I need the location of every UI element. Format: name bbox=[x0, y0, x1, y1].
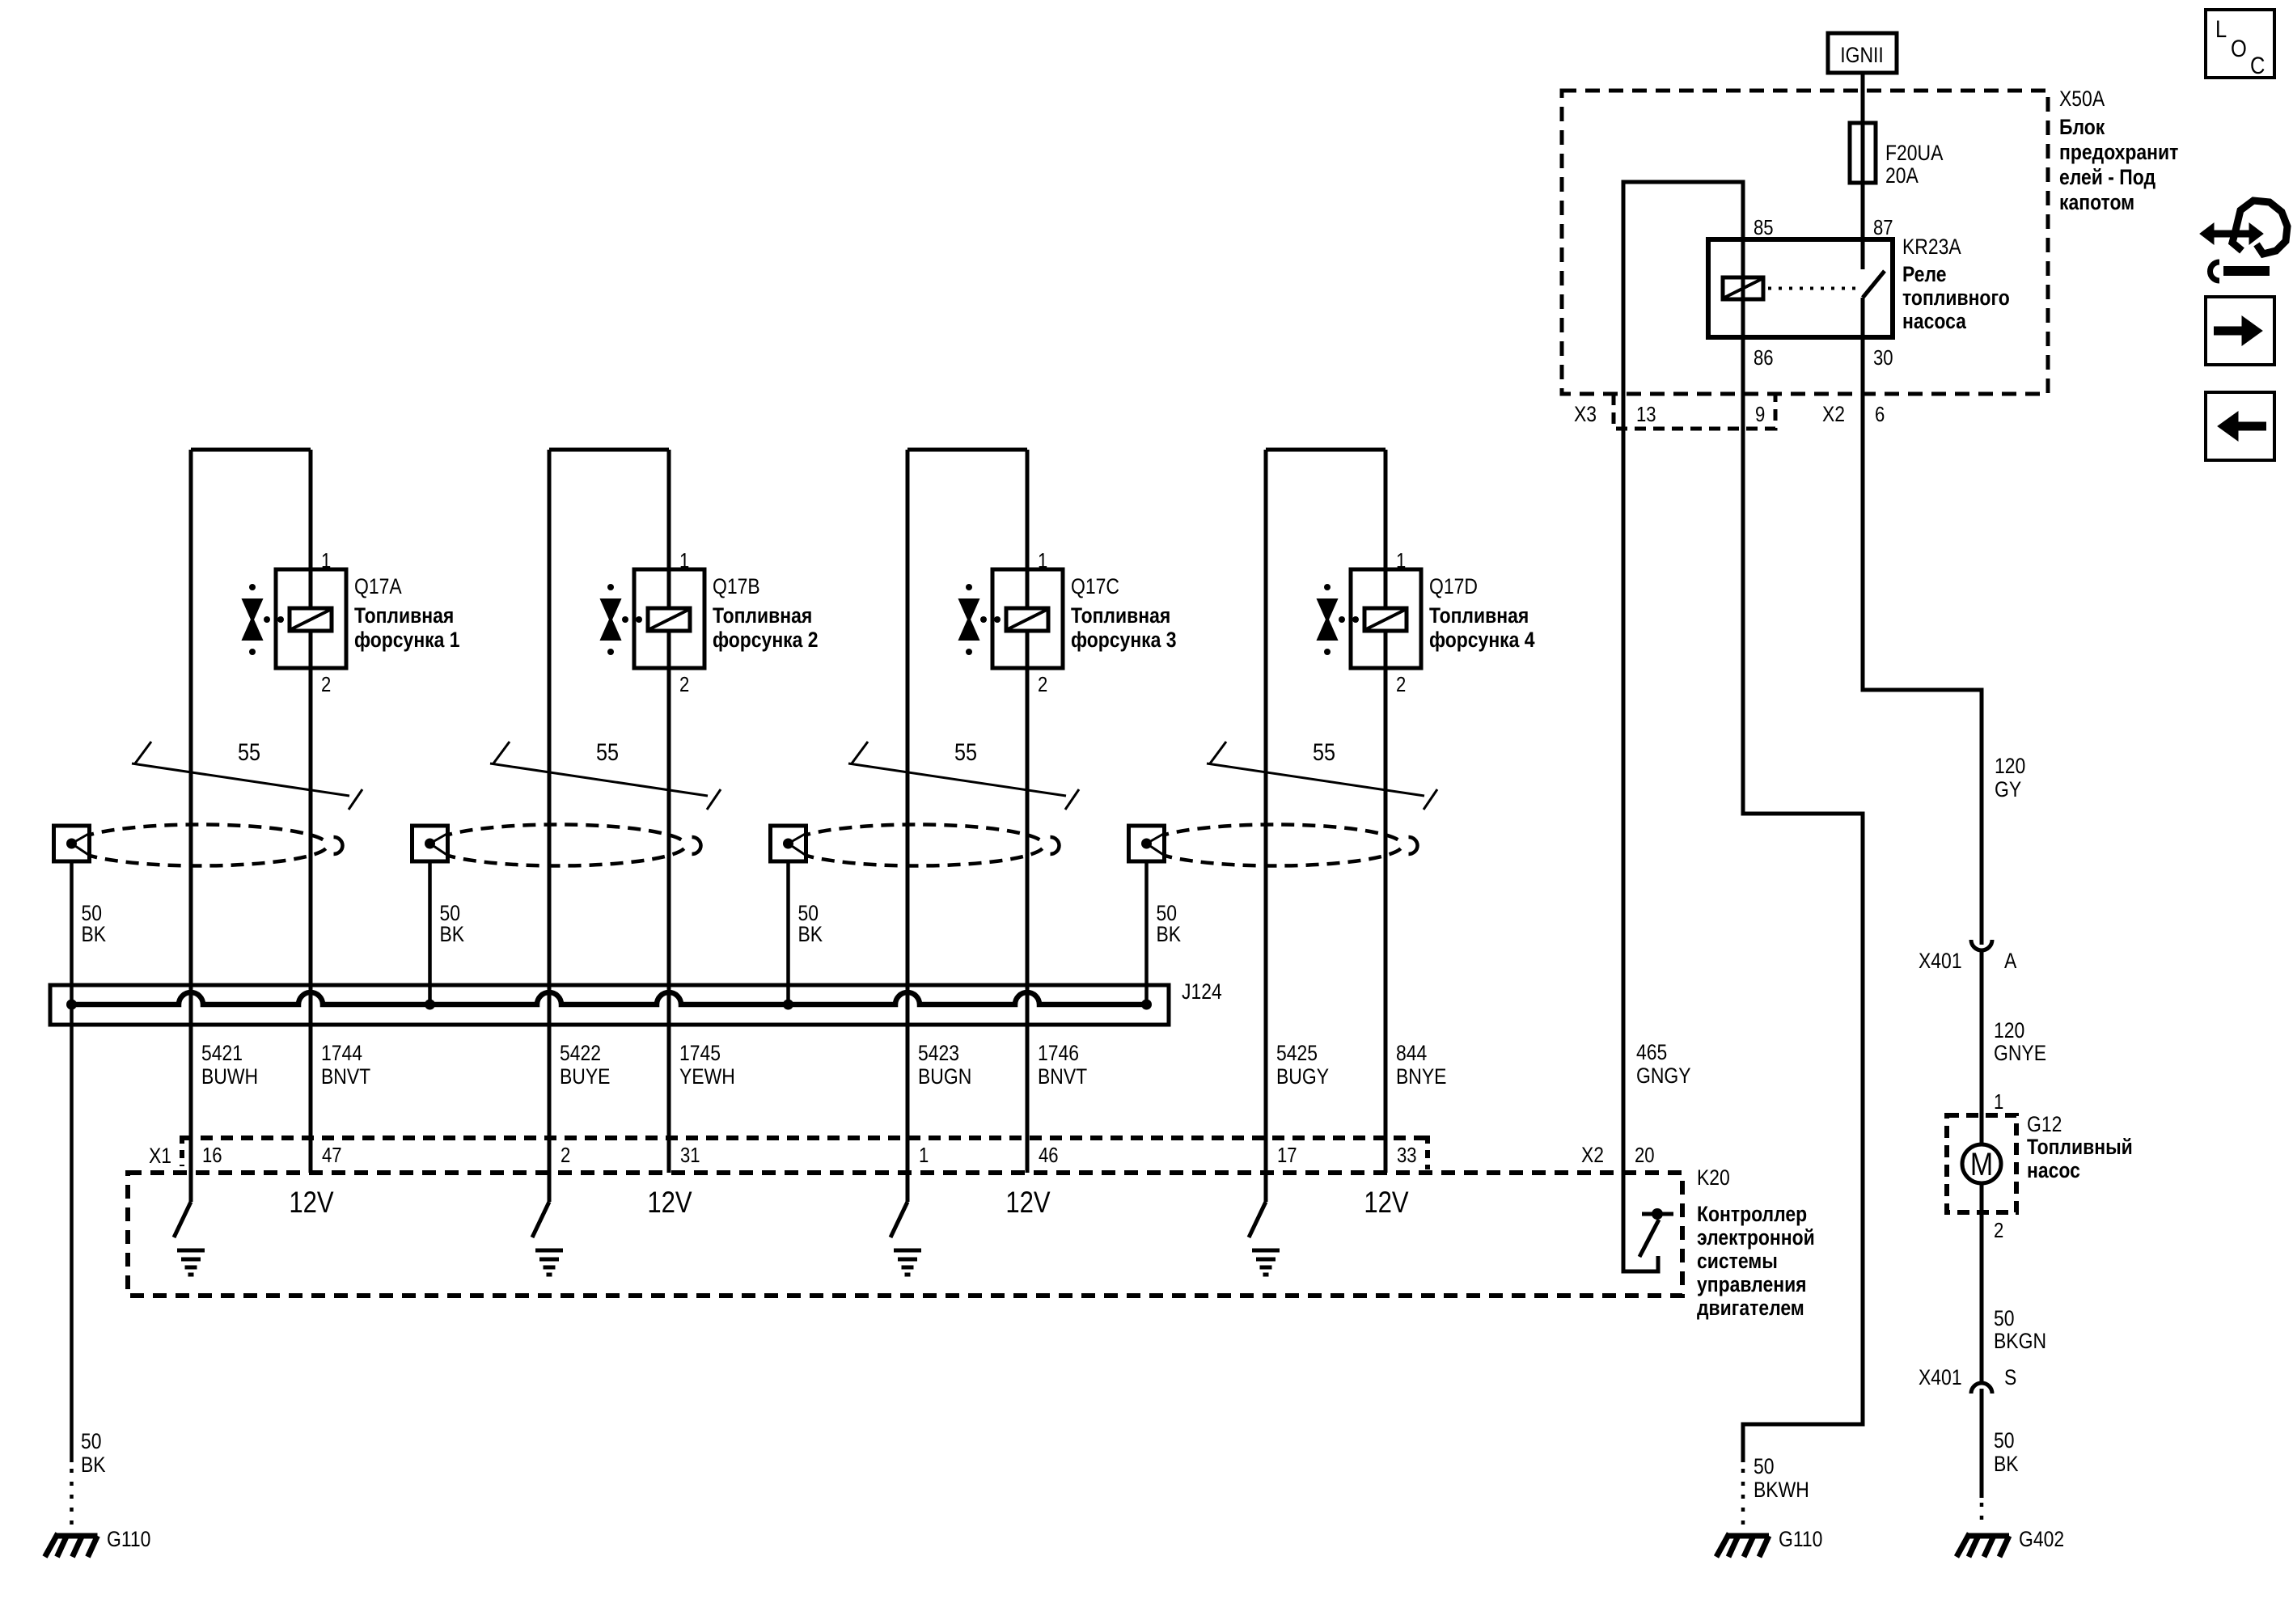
svg-text:31: 31 bbox=[680, 1144, 700, 1167]
svg-text:GNGY: GNGY bbox=[1636, 1064, 1691, 1088]
svg-text:A: A bbox=[2004, 949, 2017, 973]
svg-text:предохранит: предохранит bbox=[2059, 140, 2178, 164]
svg-text:1: 1 bbox=[919, 1144, 929, 1167]
svg-text:55: 55 bbox=[238, 738, 260, 766]
svg-text:M: M bbox=[1970, 1145, 1993, 1182]
svg-text:46: 46 bbox=[1039, 1144, 1059, 1167]
svg-text:Q17D: Q17D bbox=[1429, 574, 1478, 598]
svg-text:S: S bbox=[2004, 1365, 2016, 1389]
svg-text:844: 844 bbox=[1396, 1041, 1427, 1065]
svg-text:насоса: насоса bbox=[1902, 309, 1967, 333]
svg-text:5422: 5422 bbox=[560, 1041, 601, 1065]
svg-text:30: 30 bbox=[1873, 346, 1893, 370]
svg-text:управления: управления bbox=[1697, 1272, 1807, 1296]
svg-text:47: 47 bbox=[322, 1144, 342, 1167]
svg-text:G12: G12 bbox=[2027, 1112, 2062, 1136]
svg-text:2: 2 bbox=[1396, 673, 1406, 696]
svg-text:1: 1 bbox=[679, 549, 689, 573]
svg-text:BNYE: BNYE bbox=[1396, 1064, 1446, 1089]
svg-text:2: 2 bbox=[561, 1144, 570, 1167]
svg-text:6: 6 bbox=[1875, 403, 1885, 426]
svg-text:Топливная: Топливная bbox=[1429, 603, 1529, 628]
svg-text:форсунка 3: форсунка 3 bbox=[1071, 628, 1177, 652]
svg-text:465: 465 bbox=[1636, 1040, 1667, 1064]
svg-text:GNYE: GNYE bbox=[1994, 1041, 2046, 1065]
svg-text:X50A: X50A bbox=[2059, 87, 2105, 111]
svg-text:GY: GY bbox=[1995, 777, 2021, 801]
svg-text:1: 1 bbox=[321, 549, 331, 573]
svg-text:12V: 12V bbox=[1005, 1186, 1050, 1220]
svg-text:C: C bbox=[2250, 52, 2265, 78]
svg-text:Блок: Блок bbox=[2059, 115, 2105, 139]
svg-text:елей - Под: елей - Под bbox=[2059, 165, 2156, 189]
svg-text:20A: 20A bbox=[1885, 163, 1919, 188]
svg-text:BNVT: BNVT bbox=[321, 1064, 370, 1089]
svg-text:87: 87 bbox=[1873, 216, 1893, 239]
svg-text:BUYE: BUYE bbox=[560, 1064, 610, 1089]
svg-text:16: 16 bbox=[202, 1144, 222, 1167]
svg-text:J124: J124 bbox=[1182, 979, 1222, 1004]
svg-text:капотом: капотом bbox=[2059, 190, 2134, 214]
svg-text:BK: BK bbox=[440, 922, 465, 946]
svg-text:5425: 5425 bbox=[1276, 1041, 1318, 1065]
svg-text:Топливный: Топливный bbox=[2027, 1135, 2133, 1159]
svg-text:2: 2 bbox=[679, 673, 689, 696]
svg-text:двигателем: двигателем bbox=[1697, 1296, 1804, 1320]
svg-text:Контроллер: Контроллер bbox=[1697, 1202, 1807, 1226]
svg-text:55: 55 bbox=[1313, 738, 1335, 766]
svg-text:Q17C: Q17C bbox=[1071, 574, 1119, 598]
svg-text:YEWH: YEWH bbox=[679, 1064, 735, 1089]
svg-text:BK: BK bbox=[798, 922, 823, 946]
svg-text:55: 55 bbox=[596, 738, 619, 766]
svg-text:электронной: электронной bbox=[1697, 1225, 1815, 1250]
svg-text:G110: G110 bbox=[1779, 1527, 1822, 1551]
svg-text:33: 33 bbox=[1397, 1144, 1417, 1167]
svg-text:1745: 1745 bbox=[679, 1041, 721, 1065]
svg-text:Q17B: Q17B bbox=[713, 574, 760, 598]
svg-text:86: 86 bbox=[1754, 346, 1774, 370]
svg-text:F20UA: F20UA bbox=[1885, 141, 1944, 165]
svg-text:20: 20 bbox=[1635, 1144, 1655, 1167]
svg-text:50: 50 bbox=[81, 1429, 102, 1453]
svg-text:Топливная: Топливная bbox=[713, 603, 812, 628]
svg-text:BK: BK bbox=[1994, 1452, 2019, 1476]
svg-text:BK: BK bbox=[1157, 922, 1182, 946]
svg-text:BK: BK bbox=[81, 1453, 106, 1477]
svg-text:17: 17 bbox=[1277, 1144, 1297, 1167]
svg-text:2: 2 bbox=[1994, 1219, 2003, 1242]
svg-text:форсунка 4: форсунка 4 bbox=[1429, 628, 1535, 652]
svg-text:Реле: Реле bbox=[1902, 262, 1947, 286]
svg-text:13: 13 bbox=[1636, 403, 1656, 426]
svg-text:120: 120 bbox=[1995, 754, 2025, 778]
svg-text:12V: 12V bbox=[289, 1186, 333, 1220]
svg-text:X1: X1 bbox=[149, 1144, 171, 1168]
svg-text:X3: X3 bbox=[1574, 402, 1597, 426]
svg-text:G110: G110 bbox=[107, 1527, 150, 1551]
svg-text:KR23A: KR23A bbox=[1902, 235, 1961, 259]
svg-text:BUGY: BUGY bbox=[1276, 1064, 1329, 1089]
svg-text:Топливная: Топливная bbox=[1071, 603, 1170, 628]
svg-text:X2: X2 bbox=[1822, 402, 1845, 426]
svg-text:1744: 1744 bbox=[321, 1041, 362, 1065]
svg-text:1: 1 bbox=[1994, 1090, 2003, 1114]
svg-text:50: 50 bbox=[1994, 1306, 2015, 1330]
svg-text:Топливная: Топливная bbox=[354, 603, 454, 628]
svg-text:BNVT: BNVT bbox=[1038, 1064, 1087, 1089]
svg-text:X401: X401 bbox=[1919, 949, 1962, 973]
svg-text:85: 85 bbox=[1754, 216, 1774, 239]
svg-text:IGNII: IGNII bbox=[1840, 43, 1884, 67]
svg-text:системы: системы bbox=[1697, 1249, 1778, 1273]
svg-text:BUGN: BUGN bbox=[918, 1064, 971, 1089]
svg-text:X2: X2 bbox=[1581, 1143, 1604, 1167]
svg-text:Q17A: Q17A bbox=[354, 574, 402, 598]
svg-text:X401: X401 bbox=[1919, 1365, 1962, 1389]
svg-text:50: 50 bbox=[1754, 1454, 1775, 1478]
svg-text:120: 120 bbox=[1994, 1018, 2024, 1042]
svg-text:G402: G402 bbox=[2019, 1527, 2064, 1551]
svg-text:BK: BK bbox=[82, 922, 107, 946]
svg-text:BKWH: BKWH bbox=[1754, 1478, 1809, 1502]
svg-text:K20: K20 bbox=[1697, 1165, 1730, 1190]
svg-text:50: 50 bbox=[1994, 1428, 2015, 1453]
svg-text:5421: 5421 bbox=[201, 1041, 243, 1065]
svg-text:BUWH: BUWH bbox=[201, 1064, 258, 1089]
svg-text:1: 1 bbox=[1396, 549, 1406, 573]
svg-text:форсунка 1: форсунка 1 bbox=[354, 628, 460, 652]
svg-text:1: 1 bbox=[1038, 549, 1047, 573]
svg-text:топливного: топливного bbox=[1902, 285, 2010, 310]
svg-text:12V: 12V bbox=[647, 1186, 692, 1220]
svg-text:O: O bbox=[2231, 35, 2247, 61]
svg-text:2: 2 bbox=[321, 673, 331, 696]
svg-text:9: 9 bbox=[1755, 403, 1765, 426]
svg-text:2: 2 bbox=[1038, 673, 1047, 696]
svg-text:1746: 1746 bbox=[1038, 1041, 1079, 1065]
svg-text:12V: 12V bbox=[1364, 1186, 1408, 1220]
svg-text:5423: 5423 bbox=[918, 1041, 959, 1065]
svg-text:BKGN: BKGN bbox=[1994, 1329, 2046, 1353]
svg-text:насос: насос bbox=[2027, 1158, 2080, 1182]
svg-text:55: 55 bbox=[954, 738, 977, 766]
svg-text:L: L bbox=[2215, 15, 2227, 42]
svg-text:форсунка 2: форсунка 2 bbox=[713, 628, 819, 652]
